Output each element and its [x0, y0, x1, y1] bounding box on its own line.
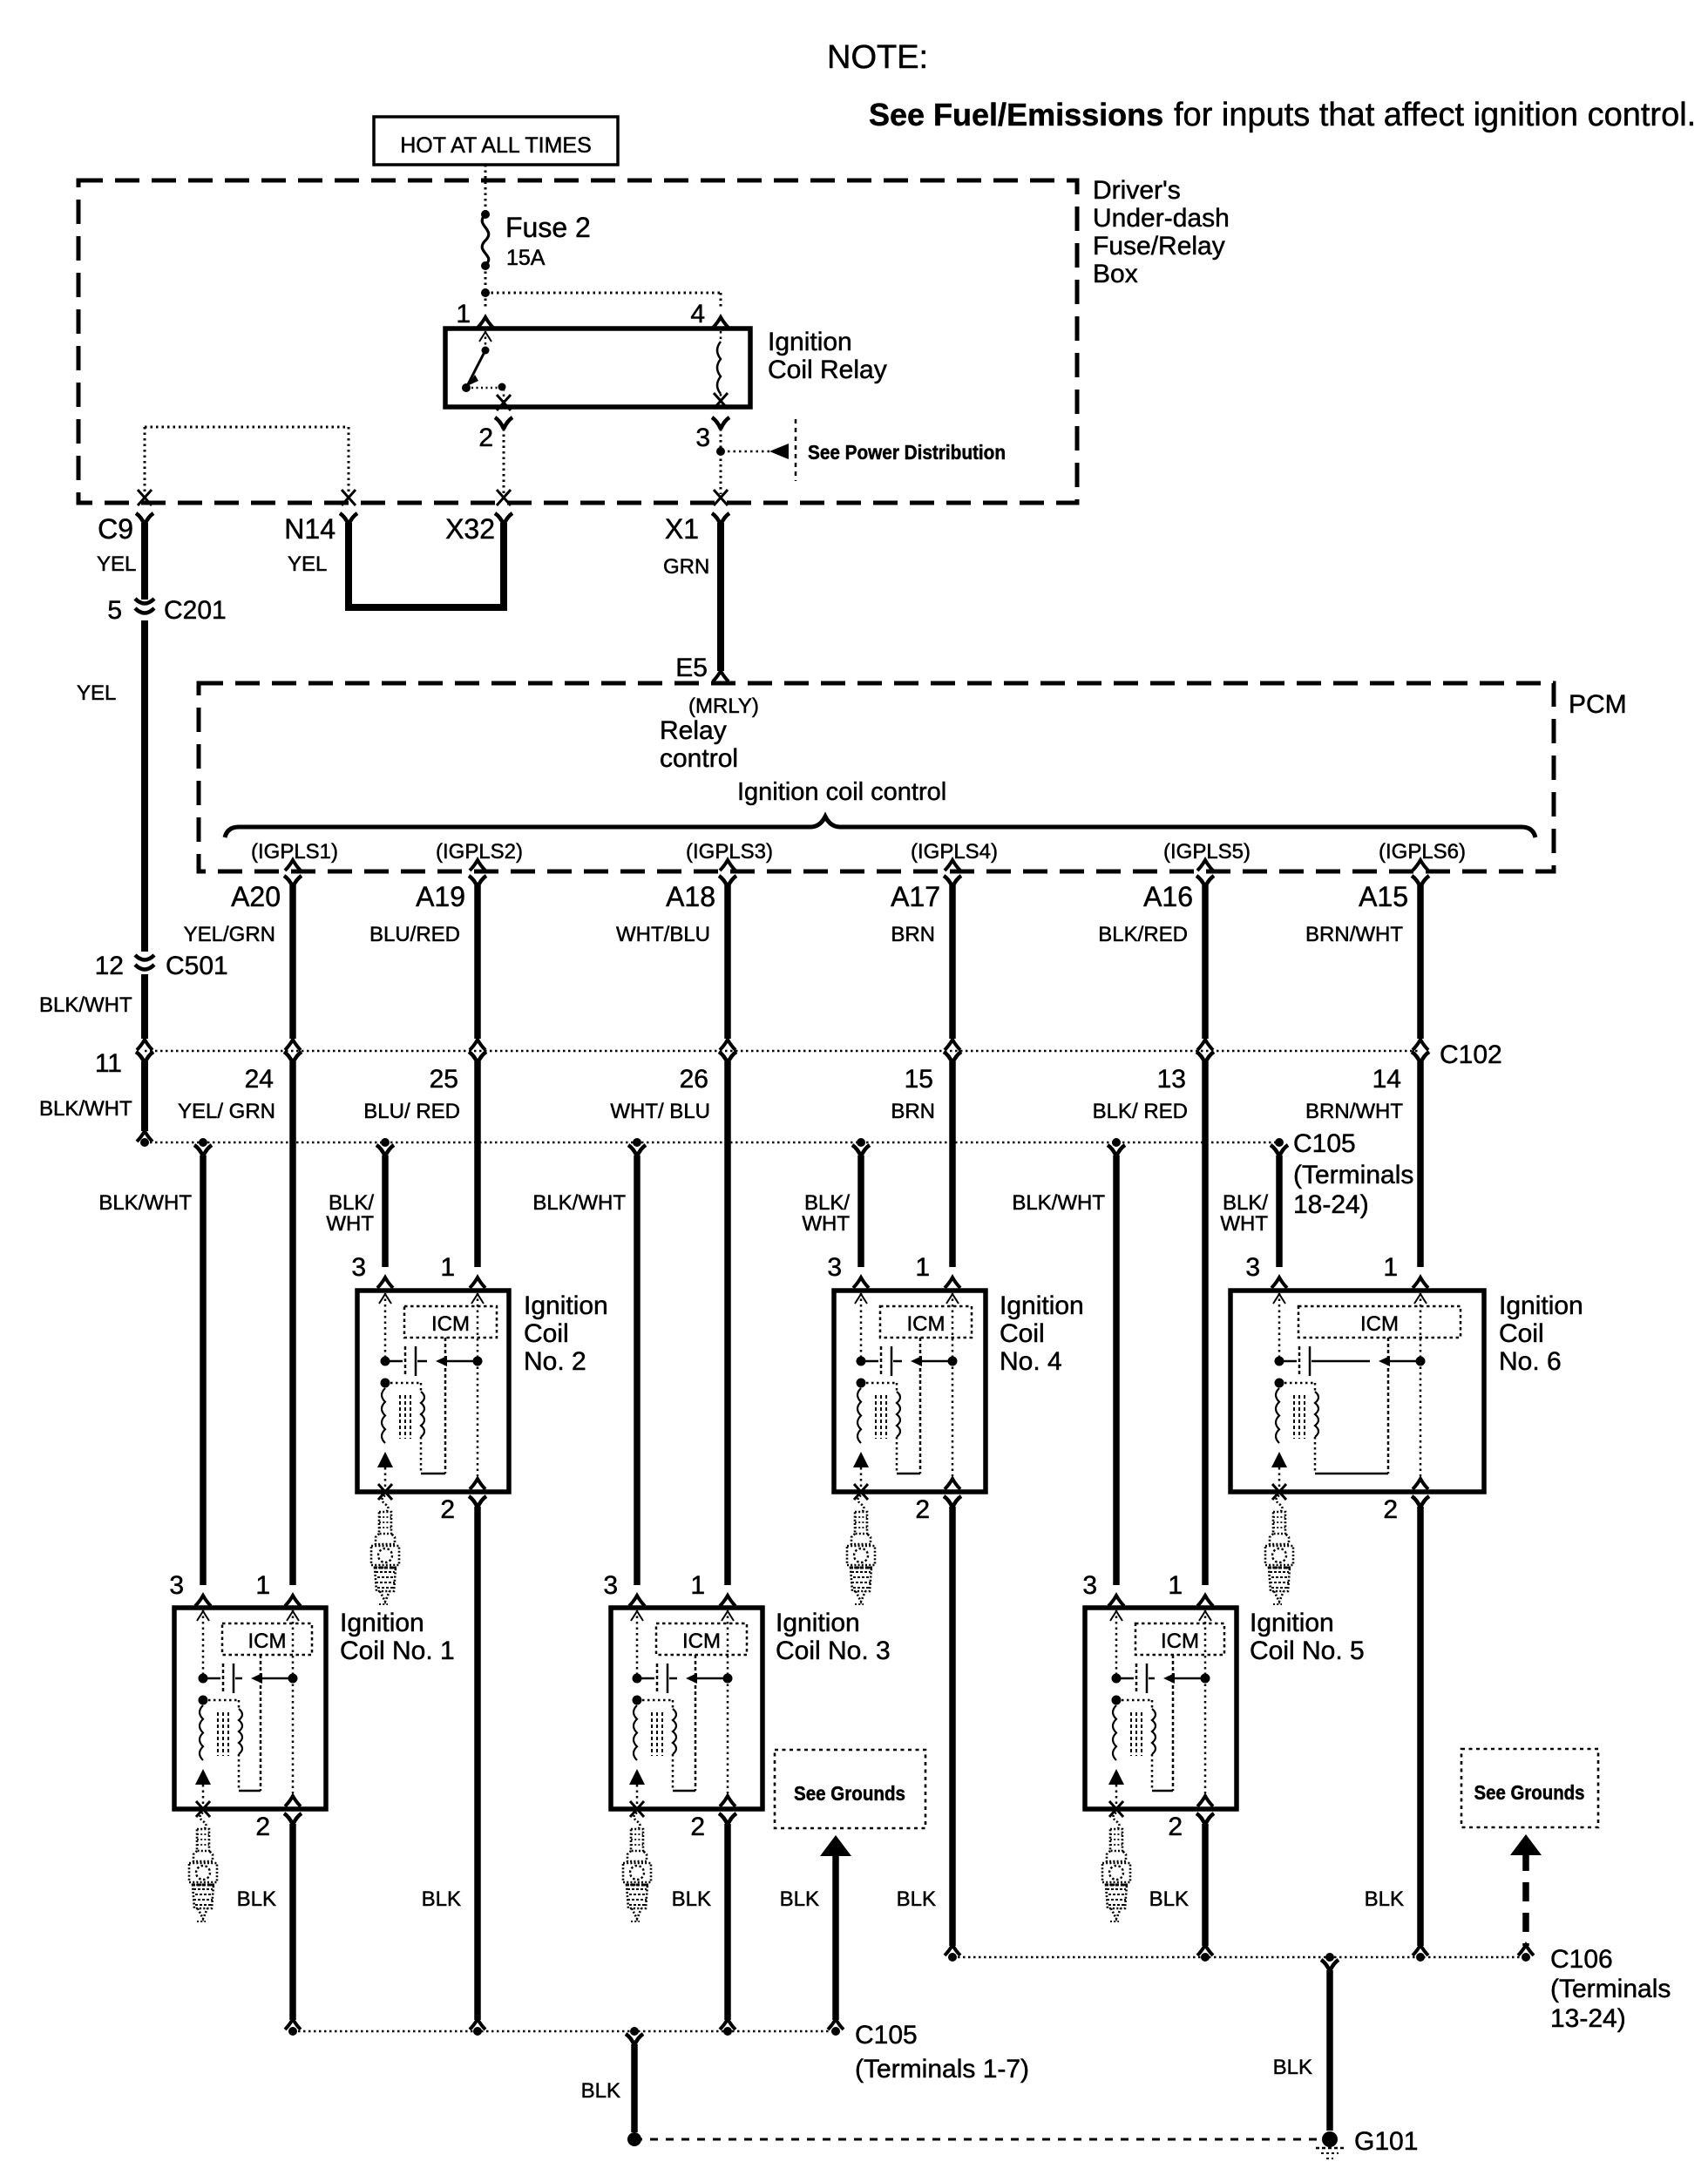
coil 5 pin 1 lead [1204, 1610, 1207, 1793]
connector C501 symbol [135, 955, 154, 970]
connector C105 (1-7) line [293, 2030, 836, 2033]
svg-text:C9: C9 [98, 513, 133, 545]
C102 fork below pin 26 [719, 1052, 736, 1063]
C102 fork above pin 11 [137, 1040, 152, 1050]
coil 4 capacitor [861, 1360, 878, 1363]
wire YEL C201 to C501 [141, 620, 148, 952]
see grounds right arrow [1510, 1834, 1542, 1855]
ground bus dot coil 5 [1201, 1953, 1210, 1962]
svg-text:2: 2 [690, 1813, 705, 1841]
coil pin 3 connector coil3 [629, 1596, 645, 1606]
coil pin 3 connector coil1 [195, 1596, 211, 1606]
coil 5 pin2 end fork [1197, 1945, 1213, 1955]
coil pin 1 connector from A17 [945, 1277, 960, 1288]
svg-text:ICM: ICM [907, 1312, 945, 1336]
svg-text:C201: C201 [164, 596, 227, 625]
C105 junction dot coil3 branch [633, 1138, 641, 1147]
PCM pin A18 stub [720, 860, 735, 871]
coil 3 capacitor [637, 1677, 654, 1680]
coil 5 spark lead crossing [1109, 1801, 1123, 1817]
svg-text:PCM: PCM [1569, 690, 1627, 719]
svg-text:ICM: ICM [431, 1312, 470, 1336]
svg-text:YEL/ GRN: YEL/ GRN [178, 1100, 275, 1123]
C102 fork above pin 25 [470, 1040, 485, 1050]
svg-text:BLK/WHT: BLK/WHT [532, 1191, 626, 1215]
wire relay pin3 to X1 [720, 429, 722, 450]
coil 6 tap to secondary [1279, 1382, 1315, 1385]
relay pin 2 connector below [495, 417, 512, 429]
wire A15 upper segment [1417, 885, 1424, 1039]
svg-text:WHT: WHT [802, 1212, 850, 1236]
wire BLK C106 to G101 [1326, 1970, 1333, 2131]
connector A20 fork [284, 876, 302, 887]
svg-text:BLK: BLK [780, 1887, 819, 1911]
coil pin 1 connector from A20 [285, 1596, 301, 1606]
svg-text:Fuse 2: Fuse 2 [505, 212, 591, 243]
ignition coil No. 6 box [1230, 1291, 1484, 1492]
wire BLK/WHT branch coil2 [382, 1155, 389, 1267]
coil 2 primary tap dot [381, 1379, 390, 1388]
coil 3 pin 1 bottom fork [720, 1796, 735, 1806]
ICM module coil 5 [1135, 1623, 1224, 1655]
svg-text:Ignition: Ignition [1250, 1609, 1334, 1637]
wire see grounds right dashed [1522, 1852, 1529, 1946]
svg-text:(Terminals 1-7): (Terminals 1-7) [855, 2055, 1029, 2084]
svg-text:YEL/GRN: YEL/GRN [184, 923, 275, 946]
wire BLK coil 6 pin 2 [1417, 1507, 1424, 1946]
wire A18 upper segment [724, 885, 731, 1039]
see grounds box left [775, 1750, 925, 1828]
svg-text:Coil Relay: Coil Relay [768, 356, 887, 384]
coil 6 capacitor [1279, 1360, 1297, 1363]
connector X32 fork [495, 513, 512, 525]
svg-text:(Terminals: (Terminals [1293, 1161, 1413, 1189]
coil 5 pin 2 fork [1196, 1813, 1214, 1825]
C102 fork above pin 14 [1413, 1040, 1428, 1050]
ignition coil No. 3 box [611, 1608, 762, 1809]
C102 fork below pin 11 [136, 1052, 153, 1063]
coil 6 spark output arrow [1271, 1452, 1287, 1467]
svg-text:Relay: Relay [660, 716, 727, 745]
coil 5 cap lead arrow [1174, 1677, 1203, 1680]
svg-text:Fuse/Relay: Fuse/Relay [1093, 232, 1225, 261]
G101 left node dot [627, 2132, 641, 2146]
svg-text:ICM: ICM [682, 1630, 721, 1653]
svg-text:BLK/: BLK/ [329, 1191, 374, 1215]
svg-text:See Grounds: See Grounds [1474, 1781, 1585, 1804]
C105 junction dot coil1 branch [199, 1138, 207, 1147]
coil 6 core [1293, 1395, 1295, 1439]
bus crossing at N14 [342, 490, 356, 505]
coil 4 primary tap dot [857, 1379, 866, 1388]
PCM pin A19 stub [470, 860, 485, 871]
svg-text:YEL: YEL [77, 681, 116, 705]
crossing at X32 [497, 490, 511, 505]
branch fork below C105 coil2 [376, 1145, 394, 1156]
coil 3 ICM output lead [695, 1655, 697, 1791]
svg-text:ICM: ICM [1161, 1630, 1199, 1653]
coil 1 secondary winding [239, 1709, 242, 1754]
svg-text:15: 15 [905, 1065, 933, 1094]
PCM pin A15 stub [1413, 860, 1428, 871]
svg-text:2: 2 [440, 1495, 455, 1524]
coil 2 secondary winding [421, 1392, 424, 1437]
svg-text:E5: E5 [675, 654, 708, 682]
coil 4 pin 1 lead [952, 1293, 954, 1476]
coil 6 pin1 node dot [1416, 1357, 1426, 1366]
connector A18 fork [719, 876, 736, 887]
coil 1 pin 1 lead [292, 1610, 295, 1793]
wire BLK coil 3 pin 2 [724, 1824, 731, 2020]
coil 5 tap to secondary [1116, 1699, 1152, 1702]
C105 ground drop fork [626, 2034, 643, 2045]
connector A15 fork [1412, 876, 1429, 887]
wire A20 lower segment [289, 1061, 296, 1585]
spark plug cylinder 2 [383, 1495, 389, 1513]
svg-text:C501: C501 [166, 952, 228, 980]
branch fork below C105 coil4 [852, 1145, 870, 1156]
wire end fork at C105 [137, 1131, 152, 1142]
coil 5 secondary winding [1152, 1709, 1156, 1754]
coil pin 1 connector from A15 [1413, 1277, 1428, 1288]
svg-text:YEL: YEL [97, 552, 136, 576]
spark plug cylinder 5 [1114, 1813, 1120, 1830]
coil pin 3 connector coil4 [853, 1277, 869, 1288]
C102 fork below pin 13 [1196, 1052, 1214, 1063]
relay switch pivot lead [485, 331, 487, 349]
C102 fork below pin 14 [1412, 1052, 1429, 1063]
svg-text:BLK/: BLK/ [1223, 1191, 1268, 1215]
ground bus dot coil 2 [473, 2027, 482, 2036]
wire A19 lower segment [474, 1061, 481, 1267]
svg-text:11: 11 [95, 1049, 122, 1078]
svg-text:A19: A19 [416, 881, 465, 912]
svg-text:3: 3 [827, 1253, 842, 1282]
ignition coil No. 2 box [357, 1291, 509, 1492]
svg-text:BLK/WHT: BLK/WHT [39, 1097, 132, 1121]
fuse F2 terminal dot [481, 210, 490, 219]
coil 1 primary tap dot [199, 1696, 208, 1705]
C102 fork above pin 15 [945, 1040, 960, 1050]
relay pin 1 connector [478, 317, 493, 328]
coil 4 tap to secondary [861, 1382, 897, 1385]
relay coil winding [717, 342, 721, 394]
coil 2 pin1 node dot [473, 1357, 483, 1366]
see grounds right bus dot [1522, 1953, 1530, 1962]
relay pin 2 crossing [497, 395, 511, 410]
PCM pin A17 stub [945, 860, 960, 871]
wire A17 upper segment [949, 885, 956, 1039]
connector C105 (18-24) line [145, 1142, 1279, 1144]
coil 4 pin 2 fork [944, 1496, 961, 1508]
connector A17 fork [944, 876, 961, 887]
C105 junction dot coil5 branch [1112, 1138, 1121, 1147]
svg-text:C102: C102 [1440, 1040, 1502, 1069]
coil 5 core [1130, 1712, 1132, 1756]
coil 5 pin 3 lead [1115, 1610, 1118, 1676]
see power distribution arrow wire [728, 451, 770, 453]
bus crossing at C9 [138, 490, 152, 505]
svg-text:A15: A15 [1359, 881, 1408, 912]
branch fork below C105 coil6 [1271, 1145, 1288, 1156]
svg-text:BLK/: BLK/ [804, 1191, 850, 1215]
coil 6 pin 3 lead [1278, 1293, 1281, 1359]
coil 4 spark output arrow [853, 1452, 869, 1467]
coil 6 pin 1 bottom fork [1413, 1479, 1428, 1489]
ignition coil control brace [225, 817, 1535, 837]
C105 junction dot coil2 branch [381, 1138, 390, 1147]
C106 ground drop fork [1321, 1960, 1339, 1971]
G101 node dot [1322, 2131, 1338, 2147]
ICM module coil 1 [222, 1623, 312, 1655]
see power distribution bracket [795, 419, 797, 481]
coil 5 primary tap dot [1112, 1696, 1122, 1705]
coil 2 capacitor node dot [381, 1357, 390, 1366]
svg-text:25: 25 [430, 1065, 458, 1094]
svg-text:See Power Distribution: See Power Distribution [808, 441, 1006, 464]
relay pin 4 coil crossing [714, 393, 728, 409]
coil pin 3 connector coil5 [1108, 1596, 1124, 1606]
svg-text:Ignition: Ignition [768, 328, 852, 356]
wire A20 upper segment [289, 885, 296, 1039]
wire A18 lower segment [724, 1061, 731, 1585]
coil 1 capacitor node dot [199, 1674, 208, 1684]
wire BLK/WHT to C105 [141, 1061, 148, 1131]
wire relay pin2 to X32 [503, 429, 505, 494]
relay switch blade [467, 350, 485, 386]
svg-text:Ignition coil control: Ignition coil control [737, 778, 946, 806]
svg-text:Coil No. 1: Coil No. 1 [340, 1636, 455, 1665]
coil 1 capacitor [203, 1677, 220, 1680]
see grounds right end fork [1518, 1945, 1534, 1955]
svg-text:Box: Box [1093, 260, 1138, 288]
coil 1 tap to secondary [203, 1699, 239, 1702]
coil 3 cap lead arrow [696, 1677, 726, 1680]
svg-text:Coil: Coil [1499, 1319, 1544, 1348]
wire BLK/WHT branch coil3 [634, 1155, 640, 1585]
branch fork below C105 coil5 [1108, 1145, 1125, 1156]
svg-text:2: 2 [1168, 1813, 1183, 1841]
wire hot feed into fuse [485, 165, 487, 213]
coil 4 ICM output lead [919, 1338, 922, 1474]
svg-text:Ignition: Ignition [776, 1609, 860, 1637]
spark plug cylinder 6 [1277, 1495, 1283, 1513]
coil 2 pin 2 fork [469, 1496, 486, 1508]
svg-text:Ignition: Ignition [340, 1609, 424, 1637]
coil 4 pin2 end fork [945, 1945, 960, 1955]
coil 4 core [875, 1395, 877, 1439]
svg-text:Coil No. 3: Coil No. 3 [776, 1636, 891, 1665]
svg-text:26: 26 [680, 1065, 708, 1094]
coil 2 tap to secondary [385, 1382, 421, 1385]
coil 3 spark lead crossing [630, 1801, 644, 1817]
svg-text:BLK: BLK [1273, 2056, 1312, 2079]
wire A19 upper segment [474, 885, 481, 1039]
wire branch to relay pin 4 [485, 292, 721, 295]
svg-text:1: 1 [1168, 1571, 1183, 1600]
svg-text:Ignition: Ignition [1000, 1291, 1084, 1320]
ICM module coil 2 [404, 1306, 497, 1338]
svg-text:X1: X1 [665, 513, 699, 545]
coil 2 spark output arrow [377, 1452, 393, 1467]
G101 ground symbol [1316, 2147, 1344, 2150]
coil 5 pin 1 bottom fork [1197, 1796, 1213, 1806]
relay switch pivot dot [482, 347, 490, 355]
svg-text:3: 3 [1245, 1253, 1260, 1282]
connector A19 fork [469, 876, 486, 887]
svg-text:BLU/ RED: BLU/ RED [363, 1100, 460, 1123]
driver's under-dash fuse/relay box [78, 180, 1077, 503]
coil 5 capacitor node dot [1112, 1674, 1122, 1684]
svg-text:BLK/WHT: BLK/WHT [39, 993, 132, 1017]
coil 1 cap lead arrow [261, 1677, 291, 1680]
C106 ground drop junction dot [1325, 1953, 1334, 1962]
coil 3 spark output arrow [629, 1769, 645, 1785]
coil 6 pin 2 fork [1412, 1496, 1429, 1508]
coil 1 pin 1 bottom fork [285, 1796, 301, 1806]
see grounds left arrow [820, 1835, 851, 1856]
coil 3 pin 2 fork [719, 1813, 736, 1825]
coil 3 tap to secondary [637, 1699, 673, 1702]
relay pin 3 node dot [716, 447, 725, 456]
svg-text:BLU/RED: BLU/RED [369, 923, 460, 946]
wire C9 YEL upper [141, 523, 148, 600]
ground bus dot coil 3 [723, 2027, 732, 2036]
svg-text:BLK/WHT: BLK/WHT [1012, 1191, 1105, 1215]
svg-text:Ignition: Ignition [1499, 1291, 1583, 1320]
svg-text:ICM: ICM [248, 1630, 287, 1653]
coil 3 pin 1 lead [727, 1610, 729, 1793]
svg-text:C105: C105 [855, 2021, 918, 2050]
C102 fork below pin 15 [944, 1052, 961, 1063]
wire see grounds left [832, 1853, 839, 2020]
C105 ground drop junction dot [630, 2027, 639, 2036]
connector A16 fork [1196, 876, 1214, 887]
ground bus dot coil 4 [948, 1953, 957, 1962]
fuse 2 element [482, 214, 489, 265]
branch fork below C105 coil1 [194, 1145, 212, 1156]
see grounds left bus dot [831, 2027, 840, 2036]
svg-text:NOTE:: NOTE: [827, 39, 928, 76]
svg-text:See Grounds: See Grounds [794, 1782, 905, 1805]
coil pin 1 connector from A19 [470, 1277, 485, 1288]
connector C9 fork [136, 513, 153, 525]
HOT AT ALL TIMES box [374, 117, 618, 165]
relay switch blade tip dot [462, 383, 471, 392]
coil 4 secondary winding [897, 1392, 900, 1437]
connector C201 symbol [135, 599, 154, 613]
wire BLK/WHT branch coil1 [200, 1155, 207, 1585]
svg-text:14: 14 [1372, 1065, 1401, 1094]
C102 fork above pin 26 [720, 1040, 735, 1050]
coil 1 ICM output lead [260, 1655, 262, 1791]
coil 1 primary winding [200, 1705, 203, 1760]
coil 2 pin 3 lead [384, 1293, 387, 1359]
coil 1 spark output arrow [195, 1769, 211, 1785]
svg-text:BRN: BRN [891, 1100, 935, 1123]
connector N14 fork [340, 513, 357, 525]
coil 3 pin 3 lead [636, 1610, 639, 1676]
svg-text:BRN: BRN [891, 923, 935, 946]
coil 2 primary winding [382, 1388, 385, 1443]
svg-text:13-24): 13-24) [1550, 2004, 1626, 2033]
see grounds left end fork [828, 2019, 844, 2030]
coil 4 pin1 node dot [948, 1357, 958, 1366]
svg-text:1: 1 [915, 1253, 930, 1282]
coil 6 pin 1 lead [1420, 1293, 1422, 1476]
svg-text:1: 1 [690, 1571, 705, 1600]
C102 fork below pin 24 [284, 1052, 302, 1063]
svg-text:ICM: ICM [1360, 1312, 1399, 1336]
wire BLK coil 1 pin 2 [289, 1824, 296, 2020]
svg-text:WHT/BLU: WHT/BLU [616, 923, 710, 946]
svg-text:C105: C105 [1293, 1129, 1356, 1158]
coil 3 primary winding [634, 1705, 637, 1760]
svg-text:3: 3 [169, 1571, 184, 1600]
coil 2 cap lead arrow [446, 1360, 476, 1363]
branch fork below C105 coil3 [628, 1145, 646, 1156]
wire A15 lower segment [1417, 1061, 1424, 1267]
wire BLK/WHT branch coil4 [857, 1155, 864, 1267]
svg-text:Coil: Coil [524, 1319, 569, 1348]
coil 1 pin2 end fork [285, 2019, 301, 2030]
svg-text:BLK: BLK [581, 2079, 620, 2103]
coil 6 ICM output lead [1387, 1338, 1390, 1474]
ignition coil No. 5 box [1085, 1608, 1237, 1809]
wire BLK/WHT C501 to C102 [141, 974, 148, 1039]
coil 4 pin 1 bottom fork [945, 1479, 960, 1489]
svg-text:1: 1 [1383, 1253, 1398, 1282]
svg-text:13: 13 [1157, 1065, 1186, 1094]
coil 4 primary winding [857, 1388, 861, 1443]
coil 6 secondary winding [1315, 1392, 1318, 1437]
wire BLK C105 to G101 [631, 2044, 638, 2132]
svg-text:3: 3 [1082, 1571, 1097, 1600]
svg-text:2: 2 [255, 1813, 270, 1841]
coil 6 cap lead arrow [1389, 1360, 1419, 1363]
coil 4 capacitor node dot [857, 1357, 866, 1366]
coil pin 1 connector from A16 [1197, 1596, 1213, 1606]
wire X1 GRN to E5 [717, 523, 724, 671]
svg-text:See Fuel/Emissions: See Fuel/Emissions [869, 97, 1163, 132]
svg-text:(Terminals: (Terminals [1550, 1975, 1671, 2003]
relay switch contact dot [498, 383, 506, 391]
svg-text:2: 2 [1383, 1495, 1398, 1524]
svg-text:2: 2 [915, 1495, 930, 1524]
connector E5 fork [713, 671, 729, 681]
svg-text:WHT: WHT [326, 1212, 374, 1236]
coil 2 ICM output lead [444, 1338, 447, 1474]
coil 2 pin 1 lead [477, 1293, 479, 1476]
coil 4 cap lead arrow [921, 1360, 951, 1363]
coil 2 spark lead crossing [378, 1484, 392, 1500]
wire BLK/WHT branch coil5 [1113, 1155, 1120, 1585]
svg-text:Driver's: Driver's [1093, 176, 1181, 205]
relay pin 4 connector [713, 317, 729, 328]
coil 3 primary tap dot [633, 1696, 642, 1705]
G101 bus line [634, 2138, 1330, 2141]
svg-text:WHT: WHT [1220, 1212, 1268, 1236]
svg-text:No. 4: No. 4 [1000, 1347, 1062, 1376]
coil 2 pin 1 bottom fork [470, 1479, 485, 1489]
coil 1 spark lead crossing [196, 1801, 210, 1817]
ICM module coil 4 [880, 1306, 972, 1338]
svg-text:BLK/ RED: BLK/ RED [1093, 1100, 1188, 1123]
coil 1 pin1 node dot [288, 1674, 298, 1684]
coil 5 capacitor [1116, 1677, 1134, 1680]
svg-text:A17: A17 [891, 881, 940, 912]
see power distribution arrowhead [769, 444, 789, 459]
